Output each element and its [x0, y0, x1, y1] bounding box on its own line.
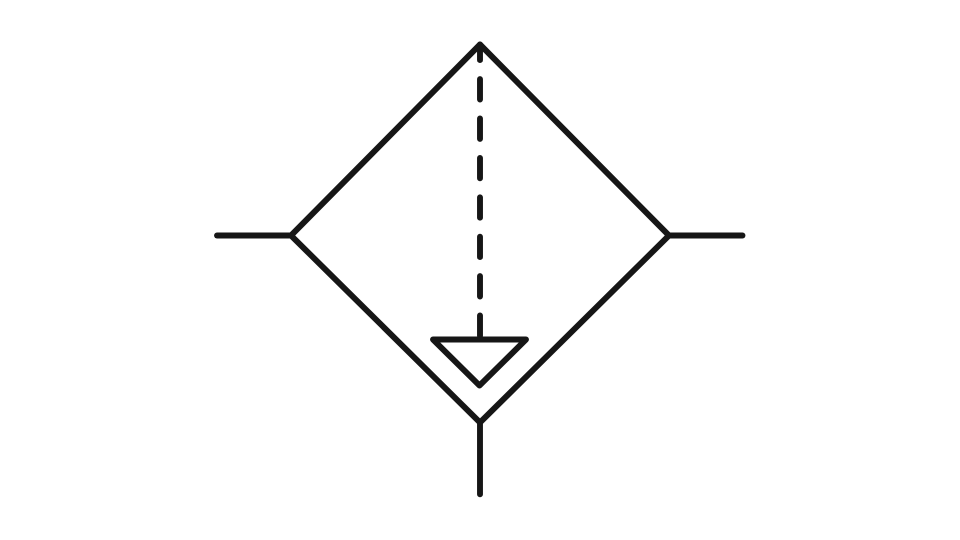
right port wire — [669, 233, 743, 239]
left port wire — [217, 233, 291, 239]
condensate drain triangle — [433, 340, 526, 386]
filter body diamond — [291, 45, 669, 423]
bottom drain wire — [477, 423, 483, 495]
dashed filter element centerline — [477, 45, 483, 340]
